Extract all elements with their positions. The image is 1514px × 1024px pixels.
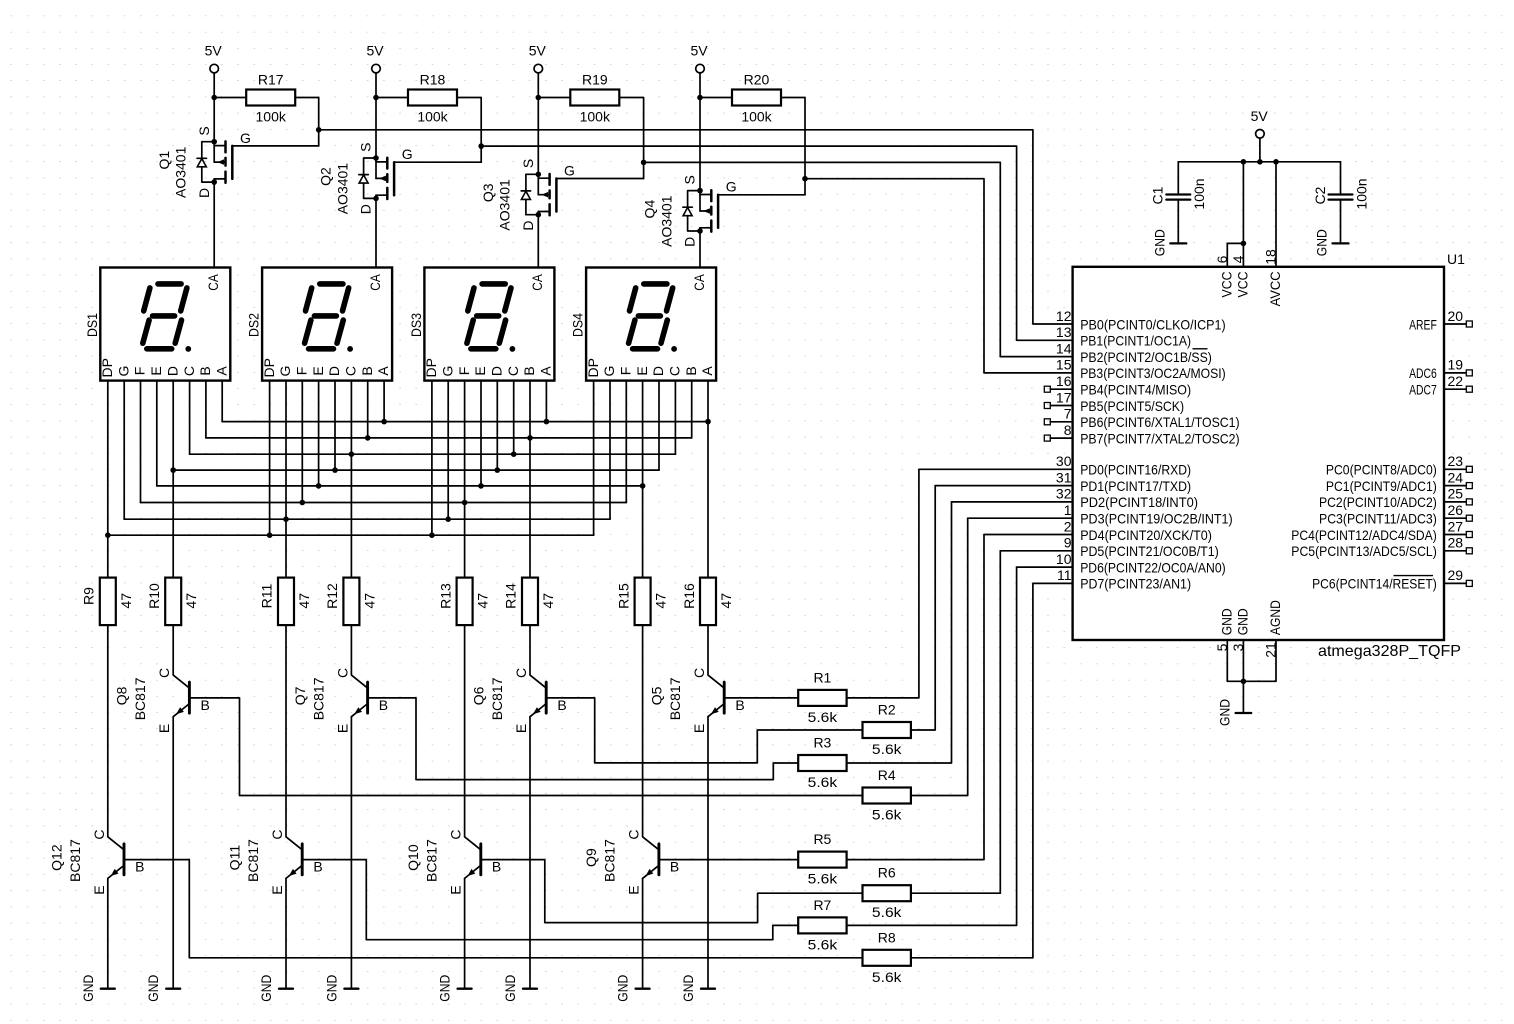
wire net SEG_E <box>157 485 643 487</box>
svg-text:5V: 5V <box>366 43 384 59</box>
svg-text:PC0(PCINT8/ADC0): PC0(PCINT8/ADC0) <box>1326 462 1437 478</box>
resistor R5 <box>798 852 846 868</box>
svg-text:D: D <box>650 366 666 376</box>
svg-text:GND: GND <box>615 975 631 1002</box>
svg-text:R13: R13 <box>437 583 453 609</box>
junction SEG_DP at DS1 <box>105 532 111 538</box>
svg-text:VCC: VCC <box>1234 272 1250 298</box>
svg-text:E: E <box>334 724 350 733</box>
wire R1 to PD0 <box>847 469 1073 698</box>
wire DS3 pin E <box>480 381 482 486</box>
wire DS1 pin DP <box>107 381 109 536</box>
svg-text:U1: U1 <box>1447 251 1465 267</box>
7-segment display DS2 <box>261 268 392 381</box>
svg-text:BC817: BC817 <box>132 677 148 720</box>
svg-text:C: C <box>181 366 197 376</box>
svg-text:23: 23 <box>1448 453 1464 469</box>
transistor Q12 BC817 (NPN) <box>91 625 145 895</box>
wire Q11 base to R7 <box>302 860 798 940</box>
wire DS4 pin G <box>609 381 611 520</box>
capacitor C1 <box>1166 162 1190 244</box>
pin 15 PB3 (U1 left) <box>1056 357 1226 382</box>
resistor R15 <box>635 578 651 626</box>
svg-text:22: 22 <box>1448 373 1464 389</box>
svg-text:PD6(PCINT22/OC0A/AN0): PD6(PCINT22/OC0A/AN0) <box>1080 559 1226 575</box>
svg-text:C: C <box>448 830 464 840</box>
svg-text:PD5(PCINT21/OC0B/T1): PD5(PCINT21/OC0B/T1) <box>1080 543 1219 559</box>
pin 16 PB4 (U1 left) <box>1044 373 1191 398</box>
svg-text:DS4: DS4 <box>570 313 586 337</box>
wire 5V to Q4 source <box>699 98 701 191</box>
wire Q6 emitter <box>529 717 531 989</box>
svg-text:C2: C2 <box>1312 186 1328 204</box>
svg-text:16: 16 <box>1056 373 1072 389</box>
svg-text:R4: R4 <box>878 767 896 783</box>
svg-text:8: 8 <box>1064 422 1072 438</box>
svg-text:PB0(PCINT0/CLKO/ICP1): PB0(PCINT0/CLKO/ICP1) <box>1080 316 1226 332</box>
svg-text:Q12: Q12 <box>48 844 64 871</box>
svg-text:18: 18 <box>1263 249 1279 265</box>
svg-text:47: 47 <box>540 593 556 609</box>
resistor R14 <box>522 578 538 626</box>
wire net SEG_G to R11 <box>285 519 287 577</box>
svg-text:BC817: BC817 <box>489 677 505 720</box>
svg-text:G: G <box>277 366 293 377</box>
wire Q10 emitter <box>464 878 466 988</box>
svg-text:B: B <box>197 366 213 375</box>
svg-text:R6: R6 <box>878 865 896 881</box>
pin 5 GND (U1 bottom) <box>1214 608 1244 681</box>
pin 24 PC1 (U1 right) <box>1326 469 1472 494</box>
junction SEG_F at DS3 <box>462 500 468 506</box>
ground symbol (C1) <box>1151 229 1186 256</box>
svg-text:PD4(PCINT20/XCK/T0): PD4(PCINT20/XCK/T0) <box>1080 527 1212 543</box>
wire DS1 pin B <box>205 381 207 438</box>
pin 21 AGND (U1 bottom) <box>1243 600 1283 681</box>
svg-text:D: D <box>164 366 180 376</box>
svg-text:GND: GND <box>1234 608 1250 635</box>
svg-text:PD7(PCINT23/AN1): PD7(PCINT23/AN1) <box>1080 576 1191 592</box>
svg-text:C1: C1 <box>1150 186 1166 204</box>
svg-text:S: S <box>520 159 536 168</box>
junction rail/5V <box>1257 159 1263 165</box>
wire net SEG_DP to R9 <box>107 535 109 577</box>
7-segment display DS1 <box>99 268 230 381</box>
wire DS3 pin G <box>447 381 449 520</box>
wire DS4 pin B <box>691 381 693 438</box>
svg-text:PD2(PCINT18/INT0): PD2(PCINT18/INT0) <box>1080 494 1198 510</box>
resistor R9 <box>100 578 116 626</box>
transistor Q4 AO3401 (P-MOSFET) <box>682 175 737 247</box>
svg-text:S: S <box>196 126 212 135</box>
wire DS4 pin C <box>674 381 676 455</box>
svg-text:D: D <box>489 366 505 376</box>
svg-text:VCC: VCC <box>1218 272 1234 298</box>
pin 17 PB5 (U1 left) <box>1044 389 1184 414</box>
svg-text:26: 26 <box>1448 502 1464 518</box>
wire DS3 pin DP <box>431 381 433 536</box>
svg-text:C: C <box>334 668 350 678</box>
wire DS1 pin G <box>123 381 125 520</box>
svg-text:ADC7: ADC7 <box>1409 382 1437 398</box>
svg-text:E: E <box>91 885 107 894</box>
svg-text:DP: DP <box>261 358 277 377</box>
wire 5V to Q2 source <box>375 98 377 159</box>
svg-text:R3: R3 <box>813 735 831 751</box>
junction SEG_G at DS3 <box>445 516 451 522</box>
wire DS3 pin F <box>464 381 466 503</box>
wire net DIG3 (gate Q3 to PB2) <box>644 162 1073 356</box>
svg-text:B: B <box>670 859 679 875</box>
svg-text:G: G <box>601 366 617 377</box>
svg-text:100n: 100n <box>1353 178 1369 209</box>
svg-text:GND: GND <box>323 975 339 1002</box>
power symbol 5V (U1) <box>1251 108 1269 162</box>
IC U1 atmega328P_TQFP body <box>1073 267 1444 640</box>
svg-text:R9: R9 <box>81 587 97 605</box>
svg-text:5.6k: 5.6k <box>808 774 839 790</box>
wire Q7 emitter <box>350 717 352 989</box>
ground symbol (Q5 emitter) <box>680 975 715 1002</box>
wire net DIG4 (gate Q4 to PB3) <box>805 179 1073 373</box>
transistor Q6 BC817 (NPN) <box>513 625 567 733</box>
power symbol 5V (Q4 column) <box>690 43 708 98</box>
junction SEG_E at DS3 <box>478 483 484 489</box>
svg-text:atmega328P_TQFP: atmega328P_TQFP <box>1318 643 1461 660</box>
pin 12 PB0 (U1 left) <box>1056 308 1226 333</box>
wire net SEG_D <box>173 469 659 471</box>
svg-text:Q6: Q6 <box>471 686 487 705</box>
svg-text:A: A <box>699 366 715 376</box>
wire Q8 emitter <box>172 717 174 989</box>
wire DS1 pin F <box>140 381 142 503</box>
svg-text:GND: GND <box>258 975 274 1002</box>
svg-text:47: 47 <box>718 593 734 609</box>
junction SEG_G at DS2 <box>283 516 289 522</box>
wire net SEG_D to R10 <box>172 470 174 577</box>
svg-text:47: 47 <box>296 593 312 609</box>
svg-text:GND: GND <box>1314 229 1330 256</box>
wire R3 to PD2 <box>847 502 1073 763</box>
wire DS4 pin D <box>658 381 660 471</box>
wire Q9 emitter <box>642 878 644 988</box>
svg-text:5.6k: 5.6k <box>872 904 903 920</box>
svg-text:Q2: Q2 <box>318 167 334 186</box>
wire Q8 base to R4 <box>189 698 862 796</box>
svg-text:S: S <box>358 143 374 152</box>
overline SS (PB2 label) <box>1193 348 1208 350</box>
pin 26 PC3 (U1 right) <box>1319 502 1472 527</box>
svg-text:AGND: AGND <box>1267 600 1283 635</box>
resistor R6 <box>863 885 911 901</box>
wire DS2 pin C <box>350 381 352 455</box>
svg-text:E: E <box>156 724 172 733</box>
svg-text:B: B <box>492 859 501 875</box>
wire DS4 pin F <box>625 381 627 503</box>
junction Q3 5V/R19 node <box>536 95 542 101</box>
wire Q2 gate <box>480 146 482 162</box>
wire DS1 pin C <box>189 381 191 455</box>
svg-text:GND: GND <box>1218 608 1234 635</box>
svg-text:PB3(PCINT3/OC2A/MOSI): PB3(PCINT3/OC2A/MOSI) <box>1080 365 1226 381</box>
wire DS4 pin A <box>707 381 709 422</box>
pin 19 ADC6 (U1 right) <box>1409 357 1472 382</box>
svg-text:5.6k: 5.6k <box>808 709 839 725</box>
svg-text:R14: R14 <box>503 583 519 609</box>
junction rail/pin4 <box>1241 159 1247 165</box>
svg-text:5: 5 <box>1214 643 1230 651</box>
svg-text:Q11: Q11 <box>227 845 243 871</box>
wire net SEG_G <box>124 518 610 520</box>
wire DS2 pin F <box>301 381 303 503</box>
wire net SEG_B to R14 <box>529 438 531 578</box>
svg-text:PC6(PCINT14/RESET): PC6(PCINT14/RESET) <box>1312 576 1437 592</box>
junction VCC pins <box>1241 241 1247 247</box>
svg-text:Q7: Q7 <box>292 686 308 705</box>
wire Q12 emitter <box>107 878 109 988</box>
power symbol 5V (Q2 column) <box>366 43 384 98</box>
ground symbol (Q11 emitter) <box>258 975 293 1002</box>
svg-text:GND: GND <box>1151 229 1167 256</box>
svg-text:47: 47 <box>118 593 134 609</box>
svg-text:5V: 5V <box>690 43 708 59</box>
junction SEG_D at DS1 <box>170 467 176 473</box>
svg-text:DP: DP <box>423 358 439 377</box>
svg-text:C: C <box>269 830 285 840</box>
svg-text:E: E <box>310 366 326 375</box>
wire net SEG_A to R16 <box>707 422 709 578</box>
wire net SEG_C to R12 <box>350 454 352 577</box>
ground symbol (Q9 emitter) <box>615 975 650 1002</box>
svg-text:5.6k: 5.6k <box>808 936 839 952</box>
svg-text:100k: 100k <box>256 109 287 125</box>
pin 31 PD1 (U1 left) <box>1056 469 1191 494</box>
svg-text:21: 21 <box>1263 642 1279 658</box>
wire Q3 drain to DS3 CA <box>537 215 539 268</box>
resistor R4 <box>863 788 911 804</box>
svg-text:47: 47 <box>653 593 669 609</box>
svg-text:R2: R2 <box>878 702 896 718</box>
wire net SEG_E to R15 <box>642 486 644 578</box>
junction gate net Q4 <box>802 176 808 182</box>
pin 23 PC0 (U1 right) <box>1326 453 1472 478</box>
resistor R2 <box>863 722 911 738</box>
resistor R18 <box>376 72 481 147</box>
pin 20 AREF (U1 right) <box>1409 308 1472 333</box>
pin 30 PD0 (U1 left) <box>1056 453 1191 478</box>
svg-text:A: A <box>213 366 229 376</box>
svg-text:D: D <box>520 220 536 230</box>
svg-text:5V: 5V <box>205 43 223 59</box>
svg-text:C: C <box>505 366 521 376</box>
svg-text:25: 25 <box>1448 486 1464 502</box>
svg-text:47: 47 <box>183 593 199 609</box>
resistor R12 <box>343 578 359 626</box>
svg-text:47: 47 <box>361 593 377 609</box>
svg-text:9: 9 <box>1064 535 1072 551</box>
svg-text:ADC6: ADC6 <box>1409 365 1437 381</box>
svg-text:PC5(PCINT13/ADC5/SCL): PC5(PCINT13/ADC5/SCL) <box>1291 543 1437 559</box>
svg-text:R1: R1 <box>813 669 831 685</box>
svg-text:7: 7 <box>1064 406 1072 422</box>
svg-text:G: G <box>564 162 575 178</box>
svg-text:B: B <box>201 697 210 713</box>
junction gate net Q3 <box>641 160 647 166</box>
power symbol 5V (Q3 column) <box>529 43 547 98</box>
wire DS4 pin DP <box>593 381 595 536</box>
pin 32 PD2 (U1 left) <box>1056 486 1198 511</box>
transistor Q2 AO3401 (P-MOSFET) <box>358 143 413 215</box>
pin 29 PC6 (U1 right) <box>1312 567 1472 592</box>
svg-text:C: C <box>667 366 683 376</box>
svg-text:29: 29 <box>1448 567 1464 583</box>
wire net SEG_F <box>141 502 627 504</box>
pin 28 PC5 (U1 right) <box>1291 535 1472 560</box>
transistor Q11 BC817 (NPN) <box>269 625 323 895</box>
wire DS2 pin B <box>367 381 369 438</box>
svg-text:PB4(PCINT4/MISO): PB4(PCINT4/MISO) <box>1080 382 1191 398</box>
svg-text:100n: 100n <box>1191 178 1207 209</box>
svg-text:BC817: BC817 <box>245 839 261 882</box>
svg-text:D: D <box>682 237 698 247</box>
transistor Q1 AO3401 (P-MOSFET) <box>196 126 251 198</box>
ground symbol (Q6 emitter) <box>502 975 537 1002</box>
wire R7 to PD6 <box>847 567 1073 925</box>
wire DS1 pin A <box>221 381 223 422</box>
svg-text:19: 19 <box>1448 357 1464 373</box>
svg-text:5.6k: 5.6k <box>872 969 903 985</box>
svg-text:A: A <box>375 366 391 376</box>
junction SEG_A at DS2 <box>381 419 387 425</box>
ground symbol (Q10 emitter) <box>437 975 472 1002</box>
svg-text:C: C <box>156 668 172 678</box>
wire DS2 pin A <box>383 381 385 422</box>
wire DS3 pin D <box>496 381 498 471</box>
transistor Q5 BC817 (NPN) <box>691 625 745 733</box>
svg-text:R18: R18 <box>420 72 446 88</box>
svg-text:PB1(PCINT1/OC1A): PB1(PCINT1/OC1A) <box>1080 333 1191 349</box>
svg-text:Q8: Q8 <box>114 686 130 705</box>
svg-text:E: E <box>634 366 650 375</box>
pin 11 PD7 (U1 left) <box>1057 567 1191 592</box>
resistor R7 <box>798 917 846 933</box>
svg-text:B: B <box>735 697 744 713</box>
junction SEG_DP at DS3 <box>429 532 435 538</box>
svg-text:B: B <box>683 366 699 375</box>
wire DS2 pin DP <box>269 381 271 536</box>
pin 14 PB2 (U1 left) <box>1056 340 1212 365</box>
svg-text:15: 15 <box>1056 357 1072 373</box>
svg-text:CA: CA <box>529 274 545 291</box>
pin 10 PD6 (U1 left) <box>1056 551 1226 576</box>
svg-text:AO3401: AO3401 <box>334 163 350 215</box>
svg-text:24: 24 <box>1448 469 1464 485</box>
svg-text:30: 30 <box>1056 453 1072 469</box>
svg-text:CA: CA <box>205 274 221 291</box>
junction SEG_B at DS3 <box>527 435 533 441</box>
svg-text:GND: GND <box>502 975 518 1002</box>
svg-text:BC817: BC817 <box>602 839 618 882</box>
svg-text:GND: GND <box>1216 699 1232 726</box>
svg-text:PB6(PCINT6/XTAL1/TOSC1): PB6(PCINT6/XTAL1/TOSC1) <box>1080 414 1239 430</box>
wire Q4 gate <box>804 179 806 195</box>
svg-text:PB2(PCINT2/OC1B/SS): PB2(PCINT2/OC1B/SS) <box>1080 349 1212 365</box>
junction SEG_C at DS3 <box>511 451 517 457</box>
svg-text:B: B <box>521 366 537 375</box>
svg-text:F: F <box>294 367 310 376</box>
pin 8 PB7 (U1 left) <box>1044 422 1239 447</box>
svg-text:CA: CA <box>367 274 383 291</box>
junction SEG_A at DS4 <box>705 419 711 425</box>
pin 3 GND (U1 bottom) <box>1230 608 1251 713</box>
ground symbol (U1) <box>1216 699 1251 726</box>
svg-text:PD0(PCINT16/RXD): PD0(PCINT16/RXD) <box>1080 462 1191 478</box>
junction SEG_F at DS2 <box>300 500 306 506</box>
svg-text:PD3(PCINT19/OC2B/INT1): PD3(PCINT19/OC2B/INT1) <box>1080 511 1233 527</box>
junction Q1 5V/R17 node <box>211 95 217 101</box>
svg-text:C: C <box>91 830 107 840</box>
junction SEG_E at DS2 <box>316 483 322 489</box>
pin 27 PC4 (U1 right) <box>1291 518 1472 543</box>
pin 22 ADC7 (U1 right) <box>1409 373 1472 398</box>
overline RESET (PC6 label) <box>1394 575 1434 577</box>
svg-text:G: G <box>240 130 251 146</box>
svg-text:G: G <box>115 366 131 377</box>
svg-text:F: F <box>618 367 634 376</box>
wire 5V to Q3 source <box>537 98 539 175</box>
svg-text:R19: R19 <box>582 72 608 88</box>
pin 9 PD5 (U1 left) <box>1064 535 1219 560</box>
wire Q5 emitter <box>707 717 709 989</box>
wire net SEG_C <box>190 453 676 455</box>
svg-text:3: 3 <box>1230 643 1246 651</box>
pin 7 PB6 (U1 left) <box>1044 406 1239 431</box>
pin 25 PC2 (U1 right) <box>1319 486 1472 511</box>
svg-text:5V: 5V <box>529 43 547 59</box>
pin 13 PB1 (U1 left) <box>1056 324 1191 349</box>
svg-text:D: D <box>326 366 342 376</box>
resistor R10 <box>165 578 181 626</box>
junction SEG_C at DS2 <box>349 451 355 457</box>
wire R2 to PD1 <box>911 486 1073 730</box>
svg-text:F: F <box>132 367 148 376</box>
resistor R20 <box>700 72 805 179</box>
svg-text:100k: 100k <box>417 109 448 125</box>
svg-text:D: D <box>358 204 374 214</box>
transistor Q3 AO3401 (P-MOSFET) <box>520 159 575 231</box>
svg-text:E: E <box>513 724 529 733</box>
svg-text:R17: R17 <box>258 72 284 88</box>
svg-text:D: D <box>196 188 212 198</box>
svg-text:100k: 100k <box>741 109 772 125</box>
svg-text:G: G <box>726 179 737 195</box>
svg-text:E: E <box>472 366 488 375</box>
wire Q11 emitter <box>285 878 287 988</box>
ground symbol (Q12 emitter) <box>80 975 115 1002</box>
wire Q2 drain to DS2 CA <box>375 198 377 267</box>
svg-text:2: 2 <box>1064 518 1072 534</box>
svg-text:5.6k: 5.6k <box>872 807 903 823</box>
transistor Q10 BC817 (NPN) <box>448 625 502 895</box>
svg-text:DS1: DS1 <box>84 313 100 337</box>
wire R6 to PD5 <box>911 551 1073 893</box>
svg-text:B: B <box>359 366 375 375</box>
svg-text:BC817: BC817 <box>667 677 683 720</box>
svg-text:R11: R11 <box>259 583 275 608</box>
junction gate net Q1 <box>316 127 322 133</box>
junction SEG_D at DS3 <box>495 467 501 473</box>
capacitor C2 <box>1329 162 1353 244</box>
